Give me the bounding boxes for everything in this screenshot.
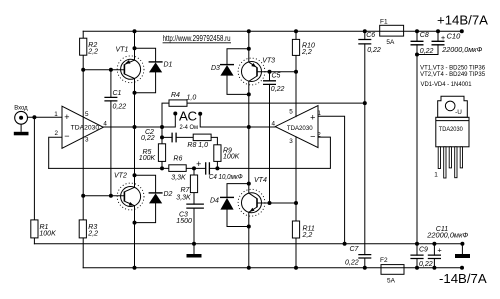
svg-text:+: + xyxy=(196,159,201,169)
wire pin 1 right amp to ground xyxy=(318,116,345,244)
svg-text:0,22: 0,22 xyxy=(367,47,381,54)
wire node A (VT1 base bias) xyxy=(83,69,124,71)
wire input to pin 1 xyxy=(28,116,62,118)
diode D3 xyxy=(211,65,234,76)
svg-text:3,3K: 3,3K xyxy=(171,174,186,181)
wire C11 branch xyxy=(433,244,435,268)
resistor R2 xyxy=(80,38,99,55)
wire C5 branch xyxy=(269,72,271,203)
wire D2 loop xyxy=(135,175,156,222)
svg-text:22000,0мкФ: 22000,0мкФ xyxy=(441,47,482,54)
svg-text:C1: C1 xyxy=(113,90,122,97)
svg-text:C6: C6 xyxy=(366,32,375,39)
fuse F2 xyxy=(380,257,404,285)
wire VT3 base xyxy=(257,71,296,73)
wire R5 connections xyxy=(161,127,163,168)
diode D4 xyxy=(210,197,234,209)
wire R8 to R9 xyxy=(211,137,217,144)
svg-text:0,22: 0,22 xyxy=(141,135,155,142)
svg-text:4: 4 xyxy=(272,120,276,127)
svg-text:0,22: 0,22 xyxy=(113,103,127,110)
svg-text:1: 1 xyxy=(317,110,321,117)
resistor R7 xyxy=(176,175,197,201)
capacitor C7 xyxy=(345,246,371,266)
svg-text:D2: D2 xyxy=(164,191,173,198)
svg-text:0,22: 0,22 xyxy=(419,261,433,268)
svg-text:4: 4 xyxy=(103,120,107,127)
wire D1 loop xyxy=(135,48,156,93)
svg-text:VT2,VT4 - BD249 TIP35: VT2,VT4 - BD249 TIP35 xyxy=(420,71,485,78)
ground right xyxy=(455,254,470,258)
svg-text:2,2: 2,2 xyxy=(87,230,98,237)
svg-text:0,22: 0,22 xyxy=(420,48,434,55)
svg-text:C8: C8 xyxy=(420,32,429,39)
svg-text:VT4: VT4 xyxy=(254,177,267,184)
wire feedback rail xyxy=(49,137,331,168)
svg-text:+: + xyxy=(441,33,446,42)
svg-text:−: − xyxy=(310,131,315,141)
ground mid xyxy=(187,254,202,258)
capacitor C3 xyxy=(176,204,204,225)
svg-text:−: − xyxy=(64,131,69,141)
svg-text:1: 1 xyxy=(54,111,58,118)
capacitor C4 electrolytic xyxy=(196,159,243,181)
resistor R5 xyxy=(139,144,166,162)
capacitor C8 xyxy=(411,32,434,55)
svg-text:2,2: 2,2 xyxy=(302,232,313,239)
svg-text:C4 10,0мкФ: C4 10,0мкФ xyxy=(209,174,243,181)
svg-text:5A: 5A xyxy=(386,39,395,46)
transistor VT4 xyxy=(238,177,267,216)
wire C2 branch xyxy=(162,136,193,138)
svg-text:100K: 100K xyxy=(139,155,156,162)
svg-text:1,0: 1,0 xyxy=(187,95,197,102)
fuse F1 xyxy=(380,19,404,47)
wire C10 branch xyxy=(417,31,438,54)
svg-text:22000,0мкФ: 22000,0мкФ xyxy=(426,232,468,239)
capacitor C2 xyxy=(141,129,176,143)
resistor R9 xyxy=(214,145,240,162)
resistor R3 xyxy=(79,220,98,238)
svg-text:TDA2030: TDA2030 xyxy=(287,125,313,132)
svg-text:3,3K: 3,3K xyxy=(176,194,191,201)
svg-text:R8 1,0: R8 1,0 xyxy=(187,142,208,149)
wire C6-C7 vertical xyxy=(364,31,366,268)
svg-text:D3: D3 xyxy=(211,65,220,72)
resistor R11 xyxy=(292,221,315,239)
transistor VT3 xyxy=(238,57,275,85)
wire left bias vertical (R2/R3 chain, pins 5-3 of left op-amp) xyxy=(82,31,84,268)
svg-text:D1: D1 xyxy=(164,61,173,68)
svg-text:VT2: VT2 xyxy=(114,172,127,179)
wire C1 branch xyxy=(110,70,112,196)
wire pin 2 feedback down xyxy=(49,137,62,168)
svg-text:0,22: 0,22 xyxy=(271,86,285,93)
wire R4 connections xyxy=(162,103,365,127)
wire right bias vertical (R10, pins 5-3 of right amp, R11) xyxy=(295,31,297,268)
wire node B (VT2 base bias) xyxy=(83,195,124,197)
svg-text:5: 5 xyxy=(85,111,89,118)
wire VT4 base xyxy=(257,202,296,204)
capacitor C9 xyxy=(410,247,432,268)
svg-text:АС: АС xyxy=(179,109,198,124)
transistor VT1 xyxy=(116,47,145,83)
wire R7-C3 chain xyxy=(193,168,195,243)
svg-text:3: 3 xyxy=(289,138,293,145)
svg-text:R6: R6 xyxy=(173,156,182,163)
svg-text:2: 2 xyxy=(317,132,321,139)
svg-text:VD1-VD4 - 1N4001: VD1-VD4 - 1N4001 xyxy=(421,81,472,88)
node parts list xyxy=(420,65,485,88)
svg-text:TDA2030: TDA2030 xyxy=(439,126,463,133)
op-amp U1 left TDA2030 xyxy=(54,106,107,148)
node url label xyxy=(163,34,231,43)
wire ground rail xyxy=(34,243,462,245)
svg-text:F2: F2 xyxy=(380,257,388,264)
svg-text:-14В/7А: -14В/7А xyxy=(439,271,487,286)
svg-text:C9: C9 xyxy=(419,247,428,254)
diode D2 xyxy=(149,191,173,203)
svg-text:5: 5 xyxy=(289,108,293,115)
svg-text:-U: -U xyxy=(455,109,462,116)
svg-text:2: 2 xyxy=(55,130,59,137)
wire D4 loop xyxy=(227,184,249,227)
svg-text:C5: C5 xyxy=(272,73,281,80)
node speaker AC xyxy=(173,109,202,132)
wire speaker to right amp output xyxy=(200,114,275,127)
svg-text:+: + xyxy=(437,245,442,254)
svg-text:F1: F1 xyxy=(380,19,388,26)
svg-text:+: + xyxy=(310,112,315,122)
svg-text:VT1: VT1 xyxy=(116,47,129,54)
wire VT1 collector-emitter chain xyxy=(134,31,136,127)
ground input xyxy=(14,132,29,136)
svg-text:VT3: VT3 xyxy=(262,57,275,64)
capacitor C11 electrolytic xyxy=(426,226,468,259)
resistor R1 xyxy=(31,220,56,238)
svg-text:R4: R4 xyxy=(171,92,180,99)
svg-text:+: + xyxy=(64,112,69,122)
capacitor C1 xyxy=(104,90,126,110)
svg-text:1500: 1500 xyxy=(176,218,192,225)
diode D1 xyxy=(149,61,173,72)
svg-text:Вход: Вход xyxy=(14,105,28,112)
svg-text:5A: 5A xyxy=(387,278,396,285)
wire VT2 chain xyxy=(134,127,136,268)
wire mid ground stem xyxy=(193,244,195,254)
transistor VT2 xyxy=(114,172,144,210)
svg-text:+14В/7А: +14В/7А xyxy=(437,13,488,28)
svg-text:100K: 100K xyxy=(223,153,240,160)
wire C9 branch xyxy=(416,244,418,268)
wire R9 bottom xyxy=(216,161,218,168)
svg-text:2,2: 2,2 xyxy=(301,49,312,56)
capacitor C5 xyxy=(263,73,285,94)
svg-text:1: 1 xyxy=(434,172,438,179)
resistor R10 xyxy=(292,39,315,55)
svg-text:3: 3 xyxy=(85,137,89,144)
node TDA2030 package drawing xyxy=(434,96,469,178)
svg-text:R7: R7 xyxy=(181,187,191,194)
svg-text:http://www.299792458.ru: http://www.299792458.ru xyxy=(163,34,231,43)
input connector Вход xyxy=(14,105,28,132)
svg-text:TDA2030: TDA2030 xyxy=(71,125,100,132)
wire C8 branch xyxy=(416,31,418,244)
wire VT3 chain xyxy=(248,31,250,268)
op-amp U2 right TDA2030 xyxy=(272,106,322,148)
resistor R6 xyxy=(169,156,186,182)
svg-text:100K: 100K xyxy=(39,230,56,237)
wire D3 loop xyxy=(227,49,249,95)
wire bottom -14V rail xyxy=(83,267,462,269)
wire input branch to R1 xyxy=(33,117,35,244)
svg-text:2,2: 2,2 xyxy=(87,49,98,56)
svg-text:D4: D4 xyxy=(210,197,219,204)
capacitor C6 xyxy=(358,32,381,54)
capacitor C10 electrolytic xyxy=(432,31,483,54)
wire output rail left amp to speaker xyxy=(103,114,175,128)
resistor R8 xyxy=(187,134,211,149)
svg-text:C10: C10 xyxy=(447,31,462,40)
svg-text:2-4 Ом: 2-4 Ом xyxy=(180,124,199,131)
svg-text:0,22: 0,22 xyxy=(345,259,359,266)
wire top +14V rail xyxy=(83,30,462,32)
resistor R4 xyxy=(169,92,196,106)
wire right ground stem xyxy=(461,244,463,254)
svg-text:C7: C7 xyxy=(350,246,360,253)
